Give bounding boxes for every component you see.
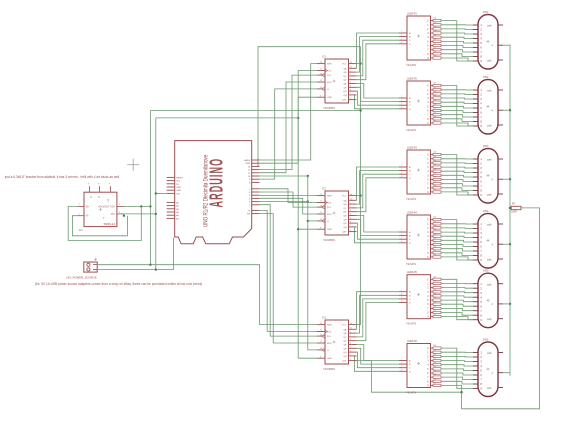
wire IC2 QC to decoder 3 (357, 174, 400, 208)
wire regulator outer loop (68, 206, 141, 240)
wire power connector lower run (98, 238, 174, 271)
svg-text:220: 220 (434, 383, 437, 385)
svg-text:RX: RX (247, 214, 251, 216)
wire decoder 6 out1 to display (441, 351, 473, 353)
wire arduino to IC1 pin 4 (260, 82, 318, 173)
svg-text:LED8-R5: LED8-R5 (407, 271, 418, 274)
svg-text:220: 220 (434, 229, 437, 231)
wire IC1 QB to decoder 1 (357, 37, 400, 73)
svg-text:6: 6 (401, 107, 402, 109)
wire arduino to IC1 pin 2 (260, 71, 318, 164)
resistor pack for decoder 1 (433, 18, 441, 60)
svg-text:220: 220 (434, 168, 437, 170)
wire IC2 QH to decoder 4 (354, 227, 399, 243)
svg-text:cath: cath (487, 258, 492, 261)
svg-text:C: C (90, 196, 92, 199)
svg-text:6: 6 (401, 241, 402, 243)
svg-text:220: 220 (434, 26, 437, 28)
svg-text:220: 220 (434, 358, 437, 360)
svg-text:220: 220 (434, 254, 437, 256)
wire regulator out2 to rail (124, 213, 157, 215)
svg-text:IC2: IC2 (322, 188, 327, 191)
svg-text:QE: QE (343, 84, 347, 86)
svg-text:cath: cath (487, 124, 492, 127)
svg-text:220: 220 (434, 301, 437, 303)
svg-text:G: G (327, 221, 329, 223)
svg-text:220: 220 (434, 51, 437, 53)
wire decoder 5 out0 wrap (441, 279, 473, 319)
svg-text:1: 1 (350, 70, 351, 72)
svg-text:1: 1 (79, 214, 80, 216)
svg-text:74LS595N: 74LS595N (323, 107, 335, 110)
svg-text:4: 4 (350, 343, 351, 345)
wire IC3 QH* bottom route (357, 361, 463, 394)
svg-text:220: 220 (434, 242, 437, 244)
svg-text:220: 220 (434, 297, 437, 299)
wire VCC rail vertical left (149, 111, 151, 265)
svg-text:cath: cath (487, 193, 492, 196)
svg-text:220: 220 (434, 233, 437, 235)
svg-text:QA: QA (343, 328, 347, 331)
svg-text:IC3: IC3 (322, 317, 327, 320)
svg-text:11: 11 (320, 201, 322, 203)
7-seg display DIS4 (473, 210, 503, 268)
wire IC3 QG to decoder 6 (357, 352, 400, 368)
wire decoder 4 out2 to display (441, 227, 473, 230)
svg-text:DIS5: DIS5 (483, 270, 489, 273)
svg-text:QC: QC (343, 208, 347, 210)
resistor pack for decoder 6 (433, 345, 441, 386)
svg-text:DIS6: DIS6 (483, 339, 489, 342)
svg-text:7: 7 (401, 359, 402, 361)
svg-text:QA: QA (343, 199, 347, 202)
svg-text:QB: QB (343, 72, 347, 74)
wire IC3 QF to decoder 6 (357, 348, 400, 364)
wire IC2 QG to decoder 4 (357, 223, 400, 239)
svg-text:TEN5-2.1: TEN5-2.1 (104, 222, 116, 226)
wire arduino to IC2 net 1 (260, 189, 318, 203)
svg-text:74LS595N: 74LS595N (323, 368, 335, 371)
svg-text:220: 220 (434, 83, 437, 85)
svg-text:3: 3 (350, 210, 351, 212)
wire IC3 QD to decoder 5 (357, 303, 400, 341)
svg-text:+5V_POWER_SOURCE: +5V_POWER_SOURCE (66, 275, 97, 279)
svg-text:cath: cath (487, 59, 492, 62)
svg-text:5: 5 (350, 86, 351, 88)
svg-text:QA: QA (343, 67, 347, 70)
resistor R7 (509, 202, 521, 214)
svg-text:16: 16 (350, 194, 352, 196)
svg-text:220: 220 (434, 374, 437, 376)
svg-text:QH*: QH* (342, 100, 346, 102)
wire IC1 QF to decoder 2 (357, 87, 400, 101)
svg-text:6: 6 (401, 42, 402, 44)
svg-text:220: 220 (434, 366, 437, 368)
svg-text:RCK: RCK (327, 343, 332, 345)
svg-text:4: 4 (350, 214, 351, 216)
svg-text:220: 220 (434, 87, 437, 89)
wire decoder 6 out0 wrap (441, 348, 473, 388)
svg-text:7: 7 (401, 230, 402, 232)
wire decoder 6 out7 to display (441, 377, 473, 379)
svg-text:2: 2 (350, 206, 351, 208)
svg-text:220: 220 (434, 103, 437, 105)
wire decoder 5 out3 to display (441, 291, 473, 294)
svg-text:+5V,VOUT: +5V,VOUT (98, 206, 110, 209)
svg-text:220: 220 (434, 293, 437, 295)
wire IC3 QH to decoder 6 (354, 356, 399, 371)
svg-text:SCK: SCK (327, 332, 332, 334)
svg-text:7: 7 (350, 93, 351, 95)
svg-text:13: 13 (320, 87, 322, 89)
wire decoder 1 out5 to display (441, 41, 473, 43)
wire GND tap IC1 (298, 96, 317, 98)
svg-text:5: 5 (350, 218, 351, 220)
svg-text:DIS3: DIS3 (483, 145, 489, 148)
svg-text:1: 1 (350, 202, 351, 204)
wire decoder 3 out1 to display (441, 158, 473, 160)
svg-text:220: 220 (434, 39, 437, 41)
decoder U6 74LS47 (399, 340, 433, 395)
svg-text:VO+: VO+ (110, 204, 116, 208)
svg-text:7: 7 (401, 31, 402, 33)
wire VCC rail to 595s (359, 47, 361, 325)
svg-text:DIS1: DIS1 (483, 11, 489, 14)
svg-text:220: 220 (434, 30, 437, 32)
svg-text:220: 220 (434, 177, 437, 179)
svg-text:QE: QE (343, 216, 347, 218)
wire decoder 3 out6 to display (441, 180, 473, 182)
svg-text:220: 220 (434, 172, 437, 174)
svg-text:QC: QC (343, 337, 347, 339)
svg-text:cath: cath (487, 283, 492, 286)
wire decoder 4 out6 to display (441, 245, 473, 247)
svg-text:8: 8 (320, 356, 321, 358)
svg-text:VI-: VI- (86, 214, 89, 218)
svg-text:6: 6 (401, 301, 402, 303)
svg-text:220: 220 (434, 285, 437, 287)
svg-text:1: 1 (401, 35, 402, 37)
wire decoder 1 out8 to display (441, 54, 473, 57)
wire decoder 5 out5 to display (441, 300, 473, 302)
7-seg display DIS6 (473, 339, 503, 397)
arduino UNO U5 (167, 141, 260, 244)
wire display 6 common tap (503, 372, 510, 374)
wire regulator out to rail (124, 205, 152, 207)
wire decoder 5 out4 to display (441, 296, 473, 297)
svg-text:QH: QH (343, 356, 347, 358)
svg-text:cath: cath (487, 90, 492, 93)
svg-text:220: 220 (434, 349, 437, 351)
svg-text:ARDUINO: ARDUINO (207, 158, 227, 208)
svg-text:RCK: RCK (327, 214, 332, 216)
wire regulator inner loop (72, 215, 127, 236)
svg-text:2: 2 (119, 204, 120, 206)
wire decoder 1 out3 to display (441, 33, 473, 34)
svg-text:QB: QB (343, 204, 347, 206)
svg-text:GND: GND (176, 187, 181, 189)
wire arduino pin10 tap (260, 175, 309, 177)
wire GND tap IC2 (298, 228, 317, 230)
svg-text:GND: GND (245, 163, 250, 165)
svg-text:VCC: VCC (342, 64, 347, 66)
svg-text:1: 1 (350, 331, 351, 333)
wire VCC rail horizontal (150, 110, 360, 112)
wire decoder 6 out5 to display (441, 369, 473, 371)
wire decoder 1 out2 to display (441, 28, 473, 31)
svg-text:6: 6 (350, 89, 351, 91)
voltage regulator IC4 (78, 183, 124, 233)
svg-text:220: 220 (434, 189, 437, 191)
wire VCC tap IC3 (357, 324, 361, 326)
svg-text:74LS47N: 74LS47N (406, 129, 416, 132)
svg-text:74LS47N: 74LS47N (406, 64, 416, 67)
svg-text:12: 12 (320, 80, 322, 82)
svg-text:220: 220 (434, 289, 437, 291)
wire decoder 2 out7 to display (441, 115, 473, 117)
svg-text:220: 220 (434, 156, 437, 158)
wire display 2 common tap (503, 109, 510, 111)
svg-text:1: 1 (79, 204, 80, 206)
svg-text:220: 220 (434, 310, 437, 312)
wire decoder 3 out2 to display (441, 162, 473, 165)
svg-text:220: 220 (434, 108, 437, 110)
wire decoder 3 out5 to display (441, 175, 473, 177)
svg-text:13: 13 (320, 219, 322, 221)
wire decoder 2 out6 to display (441, 111, 473, 113)
svg-text:16: 16 (350, 62, 352, 64)
svg-text:5: 5 (350, 347, 351, 349)
svg-text:220: 220 (434, 250, 437, 252)
wire IC1 QD to decoder 1 (357, 44, 400, 80)
svg-text:8: 8 (320, 95, 321, 97)
svg-text:QH*: QH* (342, 232, 346, 234)
svg-text:QH: QH (343, 95, 347, 97)
wire GND rail vertical left (155, 118, 157, 270)
svg-text:12: 12 (320, 212, 322, 214)
wire decoder 2 out3 to display (441, 98, 473, 99)
wire IC1 QH to decoder 2 (354, 95, 399, 109)
wire decoder 6 out2 to display (441, 355, 473, 358)
svg-text:12: 12 (320, 341, 322, 343)
note top-left (4, 175, 120, 179)
wire decoder 3 out3 to display (441, 166, 473, 169)
wire VCC tap IC1 (357, 63, 361, 65)
wire IC1 QC to decoder 1 (357, 40, 400, 76)
svg-text:7: 7 (401, 96, 402, 98)
svg-text:220: 220 (434, 22, 437, 24)
svg-text:G: G (327, 89, 329, 91)
svg-text:220: 220 (434, 306, 437, 308)
svg-text:2: 2 (401, 297, 402, 299)
wire decoder 2 out9 to display (441, 123, 473, 126)
wire arduino pin2 to IC3 SCL (260, 205, 318, 336)
svg-text:220: 220 (434, 185, 437, 187)
wire decoder 4 out1 to display (441, 223, 473, 225)
wire IC1 QA to decoder 1 (357, 33, 400, 68)
svg-text:220: 220 (434, 18, 437, 20)
svg-text:2: 2 (350, 335, 351, 337)
svg-text:220: 220 (434, 221, 437, 223)
wire IC1 QG to decoder 2 (357, 91, 400, 105)
7-seg display DIS2 (473, 76, 503, 134)
svg-text:220: 220 (434, 91, 437, 93)
svg-text:16: 16 (350, 323, 352, 325)
svg-text:QH: QH (343, 227, 347, 229)
svg-text:220: 220 (434, 314, 437, 316)
resistor pack for decoder 2 (433, 83, 441, 125)
wire arduino to IC1 pin 3 (260, 75, 318, 170)
wire decoder 4 out9 to display (441, 257, 473, 260)
power connector +5V_POWER_SOURCE (66, 258, 97, 280)
wire decoder 3 out9 to display (441, 192, 473, 195)
svg-text:VI+: VI+ (86, 204, 90, 208)
wire IC3 QC to decoder 5 (357, 299, 400, 337)
wire decoder 2 out1 to display (441, 89, 473, 91)
svg-text:VII: VII (108, 199, 110, 202)
wire decoder 6 out8 to display (441, 381, 473, 384)
svg-text:(5x. 5V 1A USB power source ad: (5x. 5V 1A USB power source adapters com… (35, 282, 202, 286)
resistor pack for decoder 5 (433, 276, 441, 317)
wire IC2 QF to decoder 4 (357, 219, 400, 235)
wire decoder 6 out4 to display (441, 365, 473, 366)
svg-text:QH*: QH* (342, 361, 346, 363)
wire decoder 5 out7 to display (441, 308, 473, 310)
svg-text:220: 220 (434, 34, 437, 36)
svg-text:2: 2 (401, 366, 402, 368)
decoder U4 74LS47 (399, 212, 433, 267)
svg-text:74LS47N: 74LS47N (406, 392, 416, 395)
svg-text:GND: GND (327, 229, 332, 231)
svg-text:1: 1 (401, 169, 402, 171)
wire arduino to IC2 net 3 (260, 198, 318, 214)
wire decoder 3 out0 wrap (441, 155, 473, 195)
resistor pack for decoder 4 (433, 217, 441, 259)
wire shared G net upper (307, 176, 309, 203)
svg-text:11: 11 (320, 69, 322, 71)
svg-text:QG: QG (343, 91, 347, 93)
wire decoder 6 out6 to display (441, 373, 473, 375)
wire VCC tap IC2 (357, 195, 361, 197)
svg-text:7: 7 (401, 165, 402, 167)
svg-text:74LS47N: 74LS47N (406, 198, 416, 201)
wire IC3 QA to decoder 5 (357, 292, 400, 330)
svg-text:220: 220 (434, 354, 437, 356)
svg-text:QG: QG (343, 223, 347, 225)
wire rail to R7 (510, 207, 511, 209)
svg-text:100R: 100R (511, 211, 517, 214)
svg-text:QD: QD (343, 212, 347, 214)
svg-text:LED8-R4: LED8-R4 (407, 212, 418, 215)
svg-text:SER: SER (327, 64, 332, 66)
svg-text:14: 14 (320, 62, 322, 64)
svg-text:6: 6 (350, 350, 351, 352)
wire display common rail (509, 45, 511, 376)
svg-text:220: 220 (434, 378, 437, 380)
svg-text:220: 220 (434, 99, 437, 101)
svg-text:7: 7 (401, 290, 402, 292)
wire arduino to IC1 pin 5 (260, 89, 318, 179)
wire decoder 1 out7 to display (441, 50, 473, 52)
origin cross (127, 159, 139, 171)
wire decoder 2 out8 to display (441, 119, 473, 122)
7-seg display DIS5 (473, 270, 503, 328)
wire display 5 common tap (503, 303, 510, 305)
svg-text:1: 1 (401, 362, 402, 364)
wire decoder 5 out9 to display (441, 317, 473, 320)
svg-text:220: 220 (434, 55, 437, 57)
svg-text:VCC: VCC (342, 325, 347, 327)
svg-text:74LS595N: 74LS595N (323, 239, 335, 242)
svg-text:2: 2 (401, 38, 402, 40)
svg-text:SCK: SCK (327, 203, 332, 205)
decoder U3 74LS47 (399, 147, 433, 202)
svg-text:220: 220 (434, 116, 437, 118)
svg-text:RESET: RESET (176, 177, 184, 179)
wire decoder 4 out3 to display (441, 231, 473, 234)
wire IC2 QB to decoder 3 (357, 171, 400, 205)
svg-text:2: 2 (350, 74, 351, 76)
note bottom (35, 282, 202, 286)
wire display 4 common tap (503, 243, 510, 245)
svg-text:220: 220 (434, 370, 437, 372)
wire decoder 5 out6 to display (441, 304, 473, 306)
svg-text:220: 220 (434, 152, 437, 154)
svg-text:GND: GND (327, 97, 332, 99)
svg-text:GND: GND (327, 358, 332, 360)
wire decoder 3 out4 to display (441, 171, 473, 172)
decoder U1 74LS47 (399, 13, 433, 68)
svg-text:QG: QG (343, 352, 347, 354)
svg-text:220: 220 (434, 181, 437, 183)
svg-text:1: 1 (401, 294, 402, 296)
wire display 3 common tap (503, 178, 510, 180)
svg-text:QD: QD (343, 341, 347, 343)
svg-text:6: 6 (401, 176, 402, 178)
svg-text:VO-: VO- (111, 212, 116, 216)
svg-text:VCC: VCC (342, 196, 347, 198)
svg-text:2: 2 (119, 212, 120, 214)
svg-text:DIS2: DIS2 (483, 76, 489, 79)
svg-text:10: 10 (320, 73, 322, 75)
wire GND tap IC3 (298, 357, 317, 359)
svg-text:11: 11 (320, 330, 322, 332)
7-seg display DIS1 (473, 11, 503, 69)
wire decoder 4 out7 to display (441, 249, 473, 251)
wire GND rail to 595s (297, 97, 299, 358)
shift register IC3 74LS595 (317, 317, 357, 372)
svg-text:220: 220 (434, 47, 437, 49)
wire arduino G net to IC2/IC3 (260, 202, 318, 222)
wire decoder 4 out5 to display (441, 240, 473, 242)
svg-text:10: 10 (320, 334, 322, 336)
svg-text:4: 4 (350, 82, 351, 84)
svg-text:SER: SER (327, 196, 332, 198)
svg-text:8: 8 (320, 227, 321, 229)
wire decoder 1 out1 to display (441, 24, 473, 26)
svg-text:SER: SER (327, 325, 332, 327)
wire decoder 5 out1 to display (441, 282, 473, 284)
svg-text:9: 9 (350, 359, 351, 361)
svg-text:14: 14 (320, 194, 322, 196)
svg-text:DIS4: DIS4 (483, 210, 489, 213)
wire decoder 2 out0 wrap (441, 86, 473, 126)
svg-text:2: 2 (401, 237, 402, 239)
svg-text:220: 220 (434, 276, 437, 278)
svg-text:14: 14 (320, 323, 322, 325)
wire decoder 4 out8 to display (441, 253, 473, 256)
svg-text:cath: cath (487, 387, 492, 390)
